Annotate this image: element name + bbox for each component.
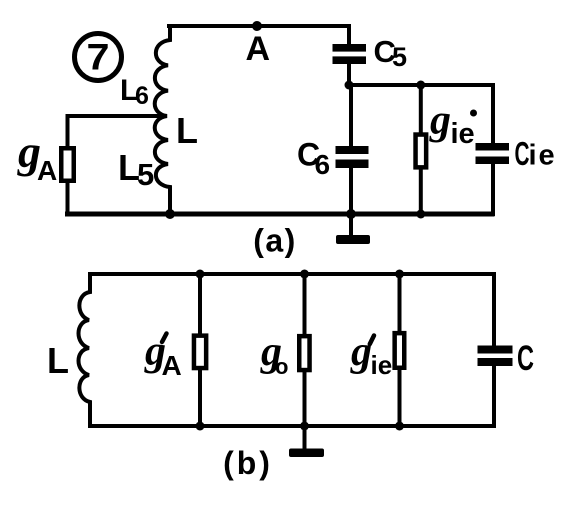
svg-text:(b): (b)	[223, 445, 273, 481]
ground (b) bar	[289, 449, 324, 458]
inductor L6/L5 tapped coil (a)	[155, 26, 170, 214]
wire top (a)	[169, 24, 348, 28]
capacitor Cie plates	[476, 143, 510, 151]
capacitor Cie stems	[491, 85, 495, 144]
capacitor C6 plates	[336, 146, 369, 154]
capacitor C plates (b)	[478, 346, 513, 354]
resistor gie' stems	[419, 85, 423, 136]
svg-text:ie: ie	[529, 140, 557, 172]
svg-text:ie: ie	[451, 118, 475, 150]
resistor gie' box	[416, 135, 427, 168]
svg-text:g: g	[350, 329, 372, 375]
wire mid (a)	[349, 83, 493, 87]
ground (a) bar	[336, 235, 370, 244]
ground (b) stem	[303, 426, 307, 449]
junction dot bottom gie' (a)	[416, 210, 425, 219]
wire bottom (a)	[68, 212, 493, 217]
svg-text:L: L	[47, 340, 69, 381]
svg-text:(a): (a)	[253, 223, 297, 259]
wire tap (a)	[68, 116, 166, 148]
junction dots bottom (b)	[196, 422, 205, 431]
junction dot bottom C6 (a)	[346, 209, 356, 219]
node A dot	[252, 21, 262, 31]
wire gA bottom	[66, 181, 70, 214]
svg-text:g: g	[429, 98, 451, 144]
resistor g'A stems	[198, 274, 202, 337]
prime of g'A	[162, 334, 167, 343]
resistor go stems	[303, 274, 307, 338]
junction dot mid-left (a)	[345, 81, 354, 90]
svg-text:6: 6	[135, 82, 149, 110]
wire bottom (b)	[90, 424, 494, 428]
capacitor C stems (b)	[492, 274, 496, 346]
svg-text:6: 6	[315, 149, 331, 180]
svg-text:5: 5	[392, 42, 407, 72]
svg-text:o: o	[275, 354, 288, 379]
svg-text:5: 5	[137, 157, 154, 192]
svg-text:A: A	[37, 155, 57, 186]
circled 7 ring	[75, 34, 122, 81]
capacitor C5 stems	[347, 26, 351, 45]
wire top (b)	[90, 272, 494, 276]
svg-text:7: 7	[87, 37, 110, 78]
svg-text:C: C	[517, 339, 534, 378]
svg-text:ie: ie	[371, 350, 393, 380]
capacitor C5 plates	[333, 44, 367, 52]
prime of g'ie	[370, 336, 374, 345]
svg-text:L: L	[176, 110, 198, 151]
resistor g'ie box	[395, 333, 405, 368]
capacitor C6 stems	[349, 85, 353, 147]
inductor L coil (b)	[79, 274, 91, 426]
svg-text:A: A	[246, 30, 271, 68]
junction dot mid-right (a)	[416, 81, 425, 90]
svg-text:A: A	[162, 350, 182, 381]
junction dots top (b)	[196, 270, 205, 279]
svg-text:C: C	[515, 135, 530, 172]
resistor g'ie stems	[398, 274, 402, 335]
resistor g'A box	[194, 336, 206, 368]
resistor gA box	[61, 148, 74, 181]
resistor go box	[299, 336, 309, 370]
ground (a) stem	[349, 214, 353, 236]
junction dot bottom coil (a)	[165, 209, 175, 219]
